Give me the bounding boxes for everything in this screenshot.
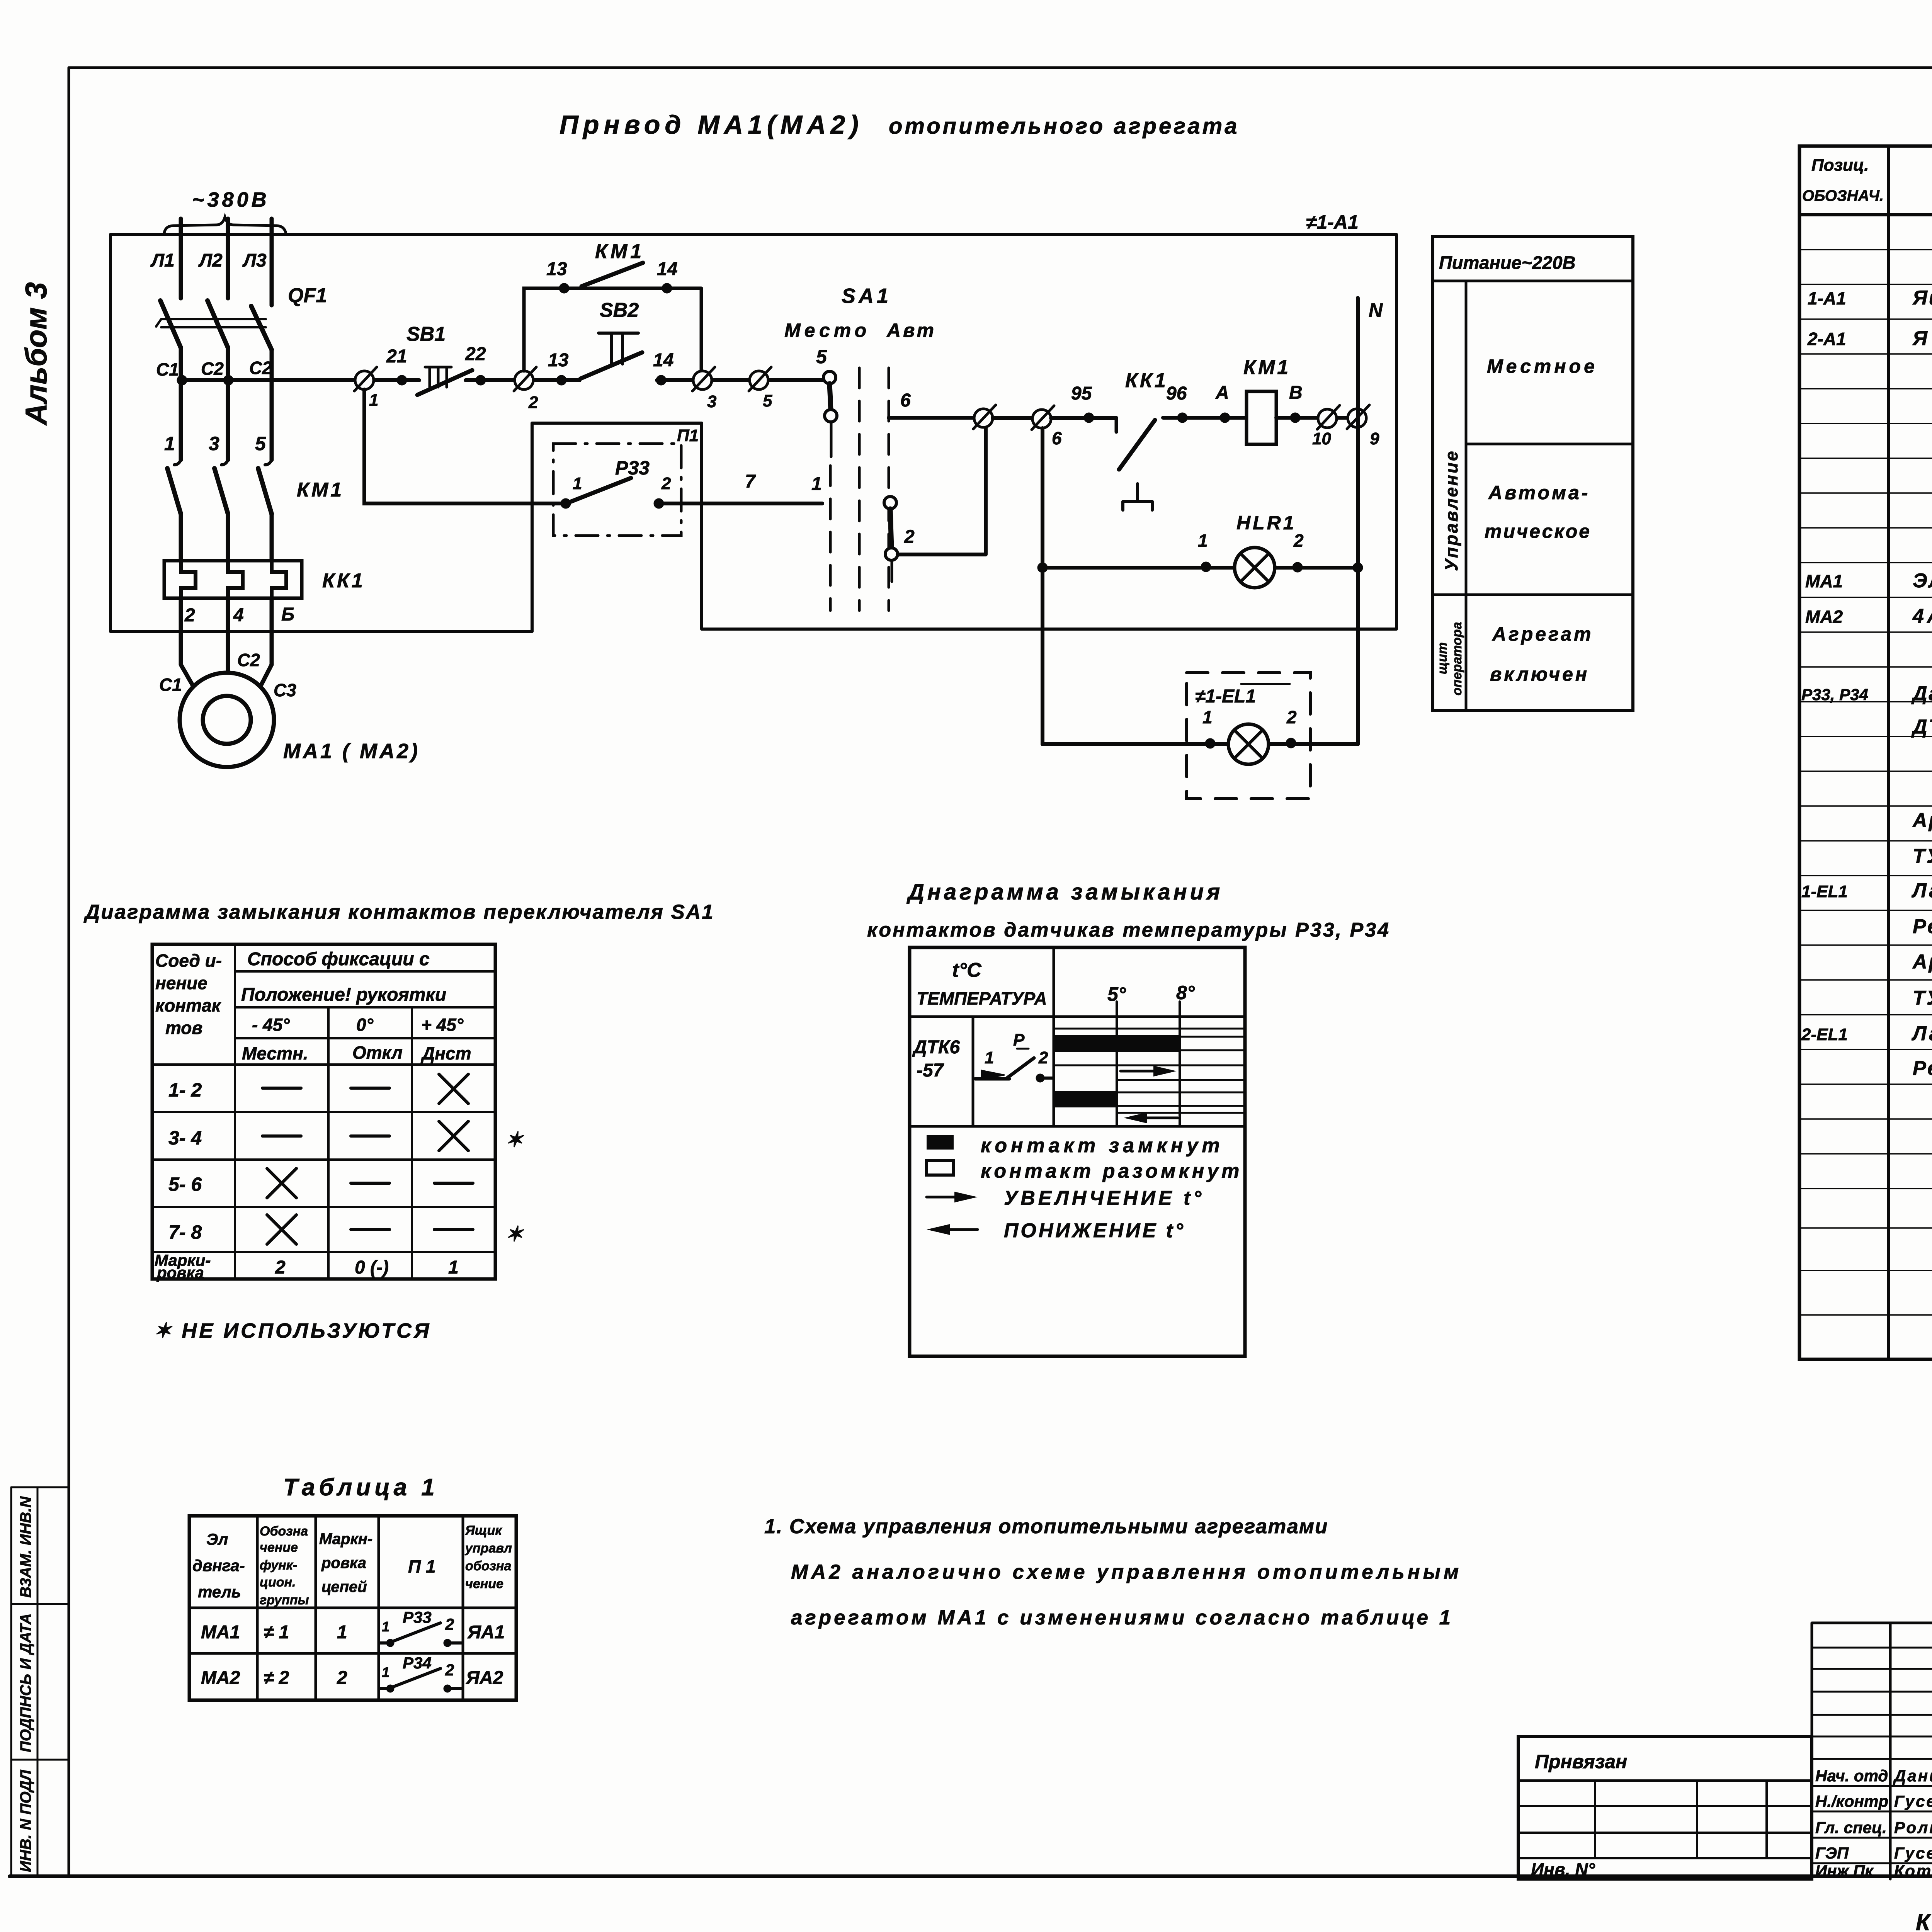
svg-text:SB1: SB1 <box>406 323 446 345</box>
svg-text:7- 8: 7- 8 <box>168 1221 202 1243</box>
svg-text:4: 4 <box>233 605 244 626</box>
arrow increase <box>1121 1070 1163 1073</box>
arrow decrease <box>1140 1117 1178 1119</box>
contact KM1 aux self-hold <box>524 288 701 371</box>
wire <box>993 416 1032 420</box>
svg-text:5: 5 <box>816 346 827 367</box>
svg-text:✶: ✶ <box>505 1128 524 1151</box>
svg-text:-57: -57 <box>917 1060 944 1081</box>
svg-text:Гусева: Гусева <box>1894 1844 1932 1862</box>
wire 1 branch to P33 <box>364 389 561 503</box>
svg-text:✶ НЕ ИСПОЛЬЗУЮТСЯ: ✶ НЕ ИСПОЛЬЗУЮТСЯ <box>154 1319 431 1342</box>
wire 2 from SA1 <box>898 427 986 554</box>
svg-text:- 45°: - 45° <box>252 1015 290 1035</box>
svg-text:1-ЕL1: 1-ЕL1 <box>1801 882 1848 901</box>
svg-text:Альбом 3: Альбом 3 <box>19 282 53 426</box>
svg-text:Питание~220В: Питание~220В <box>1439 252 1576 273</box>
brace <box>164 217 286 233</box>
row 1-2 marks <box>262 1087 301 1090</box>
svg-text:КМ1: КМ1 <box>297 479 344 501</box>
svg-text:1: 1 <box>448 1257 459 1278</box>
svg-text:3: 3 <box>707 392 716 411</box>
svg-text:контакт замкнут: контакт замкнут <box>981 1134 1224 1157</box>
svg-text:2: 2 <box>661 474 671 493</box>
wire HLR1 row <box>1043 566 1358 570</box>
bar closed 1 <box>1054 1035 1180 1052</box>
svg-text:≠1-А1: ≠1-А1 <box>1306 211 1359 233</box>
svg-text:13: 13 <box>548 350 569 371</box>
svg-text:≠1-EL1: ≠1-EL1 <box>1195 686 1256 707</box>
node 14 <box>656 375 666 385</box>
svg-text:3: 3 <box>209 433 219 454</box>
wire 1 to SA1 <box>664 502 822 505</box>
svg-text:Управление: Управление <box>1441 449 1461 571</box>
lamp HLR1 <box>1235 548 1275 588</box>
svg-text:Арматура АМЕ 32322 1У2 ~220В: Арматура АМЕ 32322 1У2 ~220В <box>1912 809 1932 832</box>
button SB2 <box>580 352 642 379</box>
svg-text:Таблица 1: Таблица 1 <box>283 1474 439 1501</box>
svg-text:2: 2 <box>275 1257 286 1278</box>
svg-text:КК1: КК1 <box>322 570 365 592</box>
svg-text:QF1: QF1 <box>288 284 327 307</box>
svg-text:ровка: ровка <box>156 1264 204 1282</box>
node 95 <box>1084 413 1094 423</box>
svg-text:1: 1 <box>1202 707 1213 727</box>
svg-text:Р: Р <box>1013 1031 1025 1049</box>
svg-text:1: 1 <box>369 391 378 410</box>
svg-text:96: 96 <box>1166 383 1187 404</box>
svg-text:1: 1 <box>1198 531 1208 551</box>
svg-text:SA1: SA1 <box>842 284 891 308</box>
svg-text:Рольцман: Рольцман <box>1894 1818 1932 1837</box>
wire lamp feed <box>1041 428 1044 744</box>
svg-text:Р33, Р34: Р33, Р34 <box>1801 685 1868 704</box>
svg-text:5: 5 <box>763 391 772 410</box>
svg-text:Агрегат: Агрегат <box>1492 623 1593 645</box>
svg-text:2: 2 <box>445 1615 454 1633</box>
sensor P33 dash-dot box <box>553 444 681 536</box>
svg-text:Датчик температуры камерный: Датчик температуры камерный <box>1911 682 1932 705</box>
terminal 5 <box>750 371 768 389</box>
svg-text:0 (-): 0 (-) <box>355 1257 389 1278</box>
svg-text:Лампа коммутаторная КМ24-90: Лампа коммутаторная КМ24-90 <box>1911 879 1932 902</box>
svg-text:2: 2 <box>184 605 195 626</box>
thermal relay KK1 <box>164 561 302 598</box>
node 21 <box>397 375 407 385</box>
node 22 <box>476 375 486 385</box>
svg-text:А: А <box>1215 383 1229 403</box>
svg-text:2-ЕL1: 2-ЕL1 <box>1801 1025 1848 1044</box>
svg-text:цион.: цион. <box>260 1575 296 1590</box>
svg-text:Днст: Днст <box>420 1043 471 1063</box>
svg-text:МА2 аналогично сх: МА2 аналогично схеме управлення отопител… <box>791 1561 1462 1583</box>
svg-text:2: 2 <box>1038 1048 1048 1067</box>
legend box Pitanie 220V <box>1433 236 1633 711</box>
svg-text:ИНВ. N ПОДЛ: ИНВ. N ПОДЛ <box>17 1769 34 1872</box>
enclosure box 1-A1 <box>111 235 1396 631</box>
svg-text:Лампа коммутаторная КМ24-90: Лампа коммутаторная КМ24-90 <box>1911 1022 1932 1045</box>
svg-text:1: 1 <box>382 1664 389 1680</box>
svg-text:Место: Место <box>784 320 870 341</box>
svg-text:Арматура АМЕ 32122 1У2 ~220В: Арматура АМЕ 32122 1У2 ~220В <box>1912 951 1932 973</box>
svg-text:2: 2 <box>904 527 915 547</box>
svg-text:9: 9 <box>1370 429 1379 448</box>
svg-text:ТУ16-353.582-76 В комплекте.: ТУ16-353.582-76 В комплекте. <box>1913 845 1932 867</box>
wires to motor <box>181 598 272 692</box>
svg-text:3- 4: 3- 4 <box>168 1127 202 1149</box>
svg-text:1. Схема управления отопительн: 1. Схема управления отопительными агрега… <box>764 1515 1328 1538</box>
svg-text:ровка: ровка <box>321 1554 366 1571</box>
svg-text:цепей: цепей <box>321 1578 367 1595</box>
svg-text:Положение! рукоятки: Положение! рукоятки <box>241 985 446 1005</box>
svg-text:Л1: Л1 <box>150 250 175 271</box>
svg-text:Я 5111-2274 УхЛ4: Я 5111-2274 УхЛ4 <box>1912 327 1932 350</box>
node 13 <box>556 375 566 385</box>
svg-text:2: 2 <box>337 1668 347 1688</box>
wire <box>1276 416 1348 420</box>
wire phase L1 stub <box>179 219 183 298</box>
button SB1 <box>417 370 472 395</box>
svg-text:Способ фиксации с: Способ фиксации с <box>247 949 430 969</box>
svg-text:обозна: обозна <box>465 1559 511 1573</box>
svg-text:Р33: Р33 <box>615 457 650 479</box>
svg-text:П1: П1 <box>677 426 699 445</box>
svg-text:1- 2: 1- 2 <box>168 1079 202 1101</box>
svg-text:~380В: ~380В <box>192 188 270 211</box>
svg-text:1: 1 <box>382 1619 389 1634</box>
contact KK1 thermal NC <box>1119 420 1155 469</box>
wire <box>1051 416 1116 420</box>
svg-text:7: 7 <box>745 471 756 492</box>
temp guides <box>1117 1002 1180 1126</box>
svg-text:Л3: Л3 <box>242 250 267 271</box>
svg-text:ПОДПНСЬ И ДАТА: ПОДПНСЬ И ДАТА <box>17 1613 34 1752</box>
svg-text:HLR1: HLR1 <box>1236 512 1296 534</box>
svg-text:Ящик управления: Ящик управления <box>1912 287 1932 309</box>
svg-text:2: 2 <box>1293 531 1304 551</box>
legend <box>927 1135 954 1150</box>
svg-text:Б: Б <box>281 604 294 625</box>
svg-text:5- 6: 5- 6 <box>168 1173 202 1195</box>
svg-text:Гусева: Гусева <box>1894 1792 1932 1810</box>
terminal 2 <box>515 371 533 389</box>
svg-text:1: 1 <box>573 474 582 493</box>
connector P1 box <box>532 423 702 631</box>
svg-text:≠ 1: ≠ 1 <box>264 1622 289 1643</box>
svg-text:Откл: Откл <box>352 1043 403 1063</box>
svg-text:тическое: тическое <box>1485 520 1591 542</box>
svg-text:МА2: МА2 <box>1805 607 1843 627</box>
svg-text:щит: щит <box>1435 642 1450 674</box>
terminal 10 <box>1318 409 1337 428</box>
svg-text:ЯА2: ЯА2 <box>465 1668 503 1688</box>
svg-text:14: 14 <box>653 350 673 371</box>
svg-text:Соед и-: Соед и- <box>155 951 222 971</box>
svg-text:ГЭП: ГЭП <box>1815 1844 1849 1862</box>
svg-text:Позиц.: Позиц. <box>1811 156 1869 175</box>
wire N <box>1356 298 1360 744</box>
svg-text:2: 2 <box>528 393 538 412</box>
svg-text:Маркн-: Маркн- <box>319 1531 372 1548</box>
svg-text:Обозна: Обозна <box>260 1524 308 1539</box>
svg-text:ДТК6: ДТК6 <box>912 1037 960 1058</box>
svg-text:C3: C3 <box>274 680 296 700</box>
terminal 1 <box>355 371 374 389</box>
terminal 9 <box>1348 409 1366 427</box>
svg-text:В: В <box>1289 383 1303 403</box>
row 3-4 marks <box>262 1134 301 1138</box>
svg-text:Днаграмма замыкания: Днаграмма замыкания <box>906 879 1223 905</box>
svg-text:Резнстор: Резнстор <box>1913 1057 1932 1080</box>
svg-text:Инж Пк: Инж Пк <box>1815 1862 1874 1880</box>
svg-text:Местное: Местное <box>1487 355 1598 377</box>
svg-text:тель: тель <box>198 1583 241 1601</box>
svg-text:отопительного агрегата: отопительного агрегата <box>889 114 1240 139</box>
svg-text:+ 45°: + 45° <box>421 1015 464 1035</box>
svg-text:Ящик: Ящик <box>465 1523 502 1538</box>
left stamp table <box>11 1487 69 1876</box>
svg-text:6: 6 <box>900 390 911 411</box>
terminal 6 <box>1032 410 1051 428</box>
svg-text:Копировал Подлевская: Копировал Подлевская <box>1916 1909 1932 1932</box>
svg-text:1: 1 <box>985 1048 994 1067</box>
svg-text:ТУ16-353. 582-76. В комплекте: ТУ16-353. 582-76. В комплекте. <box>1913 987 1932 1009</box>
node A <box>1220 413 1230 423</box>
node B <box>1290 413 1300 423</box>
svg-text:1: 1 <box>164 433 175 454</box>
svg-text:оператора: оператора <box>1450 622 1464 696</box>
svg-text:Эл: Эл <box>206 1530 228 1548</box>
svg-text:4АА 63В4, N=0 37кВт, ~380В: 4АА 63В4, N=0 37кВт, ~380В <box>1912 605 1932 628</box>
svg-text:группы: группы <box>260 1593 309 1607</box>
svg-text:✶: ✶ <box>505 1223 524 1246</box>
svg-text:Р33: Р33 <box>403 1608 432 1626</box>
svg-text:Авт: Авт <box>886 320 936 341</box>
svg-text:0°: 0° <box>356 1015 374 1035</box>
svg-text:контактов датчикав температуры: контактов датчикав температуры Р33, Р34 <box>867 919 1390 941</box>
svg-text:Котова: Котова <box>1894 1862 1932 1880</box>
wire control main <box>364 378 823 382</box>
svg-text:≠ 2: ≠ 2 <box>264 1668 289 1688</box>
svg-text:Автома-: Автома- <box>1488 482 1590 503</box>
svg-text:ОБОЗНАЧ.: ОБОЗНАЧ. <box>1802 187 1884 204</box>
coil KM1 <box>1247 391 1276 444</box>
node 96 <box>1163 416 1247 420</box>
svg-text:C1: C1 <box>156 359 179 379</box>
svg-text:Р34: Р34 <box>403 1654 432 1672</box>
wire EL1 row <box>1043 742 1358 746</box>
svg-text:C2: C2 <box>249 358 272 378</box>
svg-text:управл: управл <box>464 1541 512 1556</box>
svg-text:Прнвод МА1(МА2): Прнвод МА1(МА2) <box>560 110 863 139</box>
svg-text:C2: C2 <box>201 359 224 379</box>
SA1 diagram table <box>152 944 495 1279</box>
lamp 1-EL1 remote <box>1187 673 1310 799</box>
svg-text:C1: C1 <box>159 675 182 695</box>
svg-text:ДТКБ-57 дифференциал 3°: ДТКБ-57 дифференциал 3° <box>1911 716 1932 738</box>
svg-text:Резистор: Резистор <box>1913 915 1932 938</box>
svg-text:П 1: П 1 <box>408 1556 435 1577</box>
svg-text:чение: чение <box>465 1577 503 1591</box>
wire control feed <box>182 378 364 382</box>
svg-text:Диаграмма замыкания контактов: Диаграмма замыкания контактов переключат… <box>83 901 714 923</box>
svg-text:Прнвязан: Прнвязан <box>1535 1751 1627 1772</box>
table 1 frame <box>189 1516 516 1700</box>
wire phase verticals below QF1 <box>181 348 272 460</box>
switch SA1 dashed columns <box>830 368 889 611</box>
svg-text:5: 5 <box>255 433 266 454</box>
temp diagram box <box>910 947 1245 1356</box>
svg-text:УВЕЛНЧЕНИЕ t°: УВЕЛНЧЕНИЕ t° <box>1004 1187 1204 1209</box>
svg-text:агрегатом МА1 с изменениями: агрегатом МА1 с изменениями согласно таб… <box>791 1606 1453 1629</box>
contactor KM1 main contacts <box>174 458 272 465</box>
svg-text:ТЕМПЕРАТУРА: ТЕМПЕРАТУРА <box>917 988 1047 1009</box>
svg-text:C2: C2 <box>237 650 260 670</box>
svg-text:Инв. N°: Инв. N° <box>1531 1859 1595 1879</box>
contact P33 <box>561 498 571 509</box>
svg-text:контак: контак <box>155 995 222 1015</box>
svg-text:МА2: МА2 <box>201 1668 240 1688</box>
chart lines and bars <box>1054 1029 1245 1065</box>
bar closed 2 <box>1054 1091 1117 1107</box>
svg-text:функ-: функ- <box>260 1558 297 1573</box>
privyazan table <box>1518 1736 1812 1879</box>
svg-text:ПОНИЖЕНИЕ t°: ПОНИЖЕНИЕ t° <box>1004 1219 1185 1242</box>
svg-text:1-А1: 1-А1 <box>1808 288 1846 308</box>
svg-text:Н./контр: Н./контр <box>1815 1792 1888 1810</box>
wire 6 from SA1 <box>889 416 974 420</box>
row 7-8 marks <box>267 1215 296 1244</box>
svg-text:N: N <box>1369 299 1383 321</box>
approval table <box>1812 1623 1932 1879</box>
contact SA1-2 <box>884 497 896 509</box>
svg-text:включен: включен <box>1490 663 1589 685</box>
row 5-6 marks <box>267 1168 296 1198</box>
svg-text:МА1: МА1 <box>201 1622 240 1643</box>
svg-text:МА1: МА1 <box>1805 571 1843 591</box>
svg-text:КМ1: КМ1 <box>595 240 645 263</box>
svg-text:B3AM. ИНВ.N: B3AM. ИНВ.N <box>17 1496 34 1598</box>
terminal 3 <box>693 371 712 389</box>
wire phase L2 stub <box>226 219 230 298</box>
svg-text:двнга-: двнга- <box>192 1556 245 1575</box>
svg-text:10: 10 <box>1312 429 1331 448</box>
svg-text:чение: чение <box>260 1540 298 1555</box>
svg-text:6: 6 <box>1052 428 1062 448</box>
svg-text:Л2: Л2 <box>198 250 223 271</box>
svg-text:13: 13 <box>546 259 567 279</box>
svg-text:МА1 ( МА2): МА1 ( МА2) <box>283 740 420 763</box>
terminal (wire2 tap) <box>974 409 993 427</box>
motor MA1 <box>180 673 274 767</box>
wire phase L3 stub <box>270 219 274 305</box>
svg-text:14: 14 <box>657 259 677 279</box>
svg-text:t°C: t°C <box>952 959 982 981</box>
svg-text:22: 22 <box>465 344 486 364</box>
svg-text:2: 2 <box>1286 707 1297 727</box>
svg-text:Гл. спец.: Гл. спец. <box>1815 1818 1887 1837</box>
svg-text:SB2: SB2 <box>600 299 639 321</box>
parts table row lines <box>1799 250 1932 1315</box>
breaker QF1 <box>160 301 272 350</box>
svg-text:1: 1 <box>337 1622 347 1643</box>
svg-text:КК1: КК1 <box>1125 369 1168 392</box>
svg-text:тов: тов <box>165 1018 202 1038</box>
svg-text:1: 1 <box>811 474 822 494</box>
svg-text:КМ1: КМ1 <box>1243 356 1291 379</box>
svg-text:21: 21 <box>386 346 407 367</box>
svg-text:2: 2 <box>445 1661 454 1679</box>
svg-text:нение: нение <box>155 973 207 993</box>
parts table frame <box>1799 146 1932 1359</box>
svg-text:ЯА1: ЯА1 <box>467 1622 505 1643</box>
svg-text:8°: 8° <box>1176 982 1195 1003</box>
svg-text:95: 95 <box>1071 383 1092 404</box>
svg-text:Нач. отд: Нач. отд <box>1815 1767 1888 1785</box>
svg-text:2-А1: 2-А1 <box>1807 329 1846 349</box>
svg-text:Электродвнгатель: Электродвнгатель <box>1913 570 1932 592</box>
svg-text:контакт разомкнут: контакт разомкнут <box>981 1160 1242 1182</box>
svg-text:Местн.: Местн. <box>242 1043 308 1063</box>
svg-text:Данилов: Данилов <box>1893 1767 1932 1785</box>
contact SA1-5 <box>823 371 836 384</box>
